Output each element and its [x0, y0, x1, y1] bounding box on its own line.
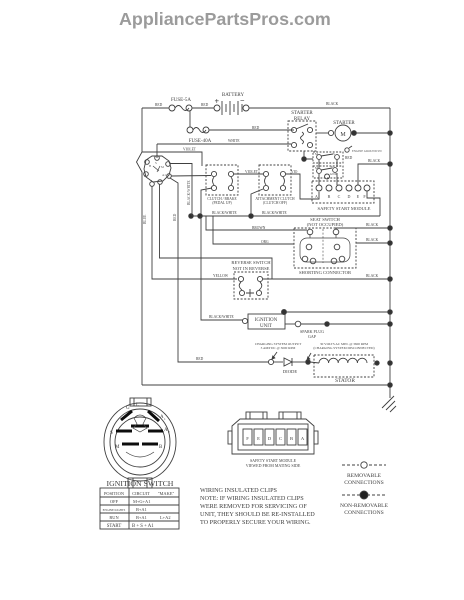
svg-text:(CHARGING SYSTEM DISCONNECTED): (CHARGING SYSTEM DISCONNECTED): [313, 346, 374, 350]
wire fuse40 riser: [189, 111, 191, 127]
wire relay coil to mini module: [304, 151, 313, 159]
svg-text:FUSE-40A: FUSE-40A: [189, 139, 212, 144]
connector J1 safety start module detail: [232, 419, 314, 454]
svg-text:IGNITION: IGNITION: [255, 318, 278, 323]
svg-text:GAP: GAP: [308, 334, 317, 339]
switch S3 ATTACHMENT CLUTCH box: [259, 165, 291, 195]
svg-text:+: +: [215, 97, 220, 106]
wire violet net upper: [142, 152, 202, 166]
wire violet to module pin A: [286, 174, 319, 199]
svg-text:IGNITION SWITCH: IGNITION SWITCH: [107, 479, 174, 488]
wire white from switch to relay: [157, 143, 291, 145]
wire black module to rail: [358, 164, 390, 185]
fuse F2 FUSE-40A: [187, 127, 193, 133]
svg-text:S: S: [331, 165, 333, 169]
svg-text:BROWN: BROWN: [252, 226, 266, 230]
svg-text:VIO: VIO: [291, 170, 298, 174]
svg-text:S: S: [333, 152, 335, 156]
wire starter to rail: [351, 132, 390, 134]
svg-text:STARTER: STARTER: [333, 121, 355, 126]
svg-text:D: D: [348, 194, 351, 199]
svg-text:NON-REMOVABLE: NON-REMOVABLE: [340, 503, 389, 509]
connector engine ground flag: [345, 148, 349, 152]
wire blackwhite down to ignition unit: [201, 216, 243, 320]
wire upper branch to reverse bypass: [160, 184, 273, 279]
svg-text:A1: A1: [162, 173, 166, 177]
svg-text:C: C: [279, 436, 282, 441]
motor M1 STARTER: [328, 130, 333, 135]
svg-text:POSITION: POSITION: [104, 491, 125, 496]
ignition unit U2 box: [248, 314, 285, 329]
svg-text:L+A2: L+A2: [160, 515, 171, 520]
ignition switch detail body: [104, 403, 176, 481]
svg-text:WHITE: WHITE: [228, 139, 240, 143]
svg-text:BLACK: BLACK: [366, 274, 379, 278]
svg-text:M: M: [161, 165, 164, 169]
seat switch S5 box: [294, 228, 356, 268]
svg-text:RELAY: RELAY: [294, 117, 311, 122]
svg-text:REMOVABLE: REMOVABLE: [347, 473, 382, 479]
interlock mini box 1: [313, 152, 343, 163]
wire seat brown: [206, 216, 307, 230]
wire clutch box 2 drop: [251, 189, 263, 216]
svg-text:L: L: [151, 179, 153, 183]
svg-text:BLACK: BLACK: [366, 238, 379, 242]
svg-text:RED: RED: [252, 126, 260, 130]
wire bottom ground run: [142, 384, 390, 386]
svg-text:B+A1: B+A1: [136, 515, 147, 520]
svg-text:S: S: [155, 161, 157, 165]
svg-text:ORG: ORG: [261, 240, 269, 244]
legend removable connection symbol: [342, 464, 386, 466]
svg-text:(PEDAL UP): (PEDAL UP): [212, 201, 232, 205]
battery B1: [214, 105, 220, 111]
svg-text:CONNECTIONS: CONNECTIONS: [344, 510, 383, 516]
svg-text:−: −: [240, 96, 245, 105]
svg-text:ENGINE GROUND SW: ENGINE GROUND SW: [352, 149, 382, 153]
wire seat orange: [213, 216, 294, 244]
svg-text:M: M: [340, 132, 346, 138]
left rail from fuse feed down to bottom: [137, 108, 143, 385]
svg-text:L: L: [136, 403, 139, 408]
svg-text:BLACK: BLACK: [366, 223, 379, 227]
svg-text:RUN: RUN: [109, 515, 119, 520]
svg-text:C: C: [338, 194, 341, 199]
svg-text:VIOLET: VIOLET: [245, 170, 259, 174]
svg-text:VIOLET: VIOLET: [183, 148, 197, 152]
svg-text:NOTE: IF WIRING INSULATED CLIP: NOTE: IF WIRING INSULATED CLIPS: [200, 495, 304, 502]
svg-text:B+A1: B+A1: [136, 507, 147, 512]
wire violet between boxes: [234, 173, 263, 175]
charging connector arrow: [272, 352, 277, 359]
svg-text:ENGINE/LIGHTS: ENGINE/LIGHTS: [103, 508, 126, 512]
stator L1 box: [314, 355, 374, 377]
svg-text:GND: GND: [330, 172, 338, 176]
svg-text:WIRING INSULATED CLIPS: WIRING INSULATED CLIPS: [200, 487, 278, 494]
svg-text:M: M: [315, 152, 318, 156]
svg-text:UNIT: UNIT: [260, 324, 272, 329]
wire top feed to fuse: [142, 107, 169, 109]
wire module internal risers: [318, 174, 320, 185]
svg-text:START: START: [107, 524, 122, 529]
svg-text:RED: RED: [201, 103, 209, 107]
svg-text:B + S + A1: B + S + A1: [132, 524, 154, 529]
interlock mini box 2: [313, 166, 343, 178]
svg-text:CONNECTIONS: CONNECTIONS: [344, 480, 383, 486]
svg-text:SHORTING CONNECTOR: SHORTING CONNECTOR: [299, 270, 352, 275]
spark plug P1: [285, 323, 295, 325]
diode D1: [274, 361, 283, 363]
svg-text:YELLOW: YELLOW: [213, 274, 229, 278]
ignition switch S1 body: [144, 156, 171, 182]
svg-text:M: M: [115, 445, 120, 450]
svg-text:G: G: [126, 406, 130, 411]
svg-text:TO PROPERLY SECURE YOUR WIRING: TO PROPERLY SECURE YOUR WIRING.: [200, 519, 311, 526]
wire fuse to battery: [192, 107, 214, 109]
wire clutch box 1 drop: [201, 188, 212, 216]
fuse F1 FUSE-5A: [169, 105, 175, 111]
svg-text:E: E: [257, 436, 260, 441]
svg-text:DIODE: DIODE: [283, 369, 297, 374]
svg-text:STATOR: STATOR: [335, 378, 355, 384]
wire black/white row: [191, 215, 380, 217]
reverse switch S4 box: [234, 272, 268, 299]
ignition switch detail terminals: [116, 411, 163, 444]
svg-text:S: S: [110, 431, 113, 436]
svg-text:B: B: [328, 194, 331, 199]
wire switch to clutch box: [171, 175, 211, 178]
svg-text:REVERSE SWITCH: REVERSE SWITCH: [231, 260, 271, 265]
svg-text:(CLUTCH OFF): (CLUTCH OFF): [263, 201, 288, 205]
svg-text:AppliancePartsPros.com: AppliancePartsPros.com: [119, 9, 331, 29]
svg-text:CIRCUIT: CIRCUIT: [132, 491, 150, 496]
svg-text:FUSE-5A: FUSE-5A: [171, 98, 191, 103]
svg-text:BLACK/WHITE: BLACK/WHITE: [209, 315, 235, 319]
svg-text:NOT IN REVERSE: NOT IN REVERSE: [233, 266, 270, 271]
svg-text:BLACK: BLACK: [368, 159, 381, 163]
svg-text:RED: RED: [345, 156, 353, 160]
svg-text:B: B: [149, 164, 151, 168]
module U1 SAFETY START MODULE box: [312, 181, 374, 203]
relay K1 STARTER RELAY box: [288, 121, 316, 151]
svg-text:1: 1: [164, 417, 166, 421]
svg-text:BLUE: BLUE: [143, 214, 147, 224]
svg-text:RED: RED: [173, 213, 177, 221]
wire battery to right rail (BLACK): [249, 107, 390, 109]
ground symbol engine ground: [382, 396, 396, 412]
svg-text:A: A: [315, 194, 318, 199]
right ground rail: [389, 108, 391, 398]
wire relay to starter: [316, 132, 328, 134]
svg-text:3 AMP DC @ 3600 RPM: 3 AMP DC @ 3600 RPM: [261, 346, 296, 350]
wire seat outputs to rail: [336, 228, 390, 229]
table ignition switch: [100, 488, 179, 529]
wire yellow to reverse switch: [152, 186, 237, 279]
wire pin F to blackwhite row: [367, 191, 380, 216]
svg-text:M: M: [315, 166, 318, 170]
svg-text:UNIT, THEY SHOULD BE RE-INSTAL: UNIT, THEY SHOULD BE RE-INSTALLED: [200, 511, 315, 518]
svg-text:RED: RED: [155, 103, 163, 107]
legend non-removable connection symbol: [342, 494, 386, 496]
svg-text:WERE REMOVED FOR SERVICING OF: WERE REMOVED FOR SERVICING OF: [200, 503, 307, 510]
svg-text:OFF: OFF: [110, 499, 119, 504]
wire fuse40 to starter relay (RED): [209, 129, 294, 131]
switch S2 CLUTCH/BRAKE box: [206, 165, 238, 195]
wire riser switch top: [156, 144, 158, 158]
svg-text:M+G+A1: M+G+A1: [133, 499, 150, 504]
wire switch M drop: [170, 164, 192, 217]
svg-text:SAFETY START MODULE: SAFETY START MODULE: [318, 206, 371, 211]
wire red charging from switch: [170, 178, 268, 362]
svg-text:BLACK: BLACK: [326, 102, 339, 106]
svg-text:F: F: [246, 436, 249, 441]
svg-text:"MAKE": "MAKE": [158, 491, 175, 496]
svg-text:B: B: [290, 436, 293, 441]
svg-text:RED: RED: [196, 357, 204, 361]
junction dot: [352, 131, 357, 136]
svg-text:(NOT OCCUPIED): (NOT OCCUPIED): [307, 222, 344, 227]
wire ignition unit top to rail: [284, 312, 390, 314]
wire reverse output to rail: [263, 278, 390, 280]
svg-text:BLACK/WHITE: BLACK/WHITE: [187, 179, 191, 205]
svg-text:BLACK/WHITE: BLACK/WHITE: [262, 211, 288, 215]
svg-text:BLACK/WHITE: BLACK/WHITE: [212, 211, 238, 215]
svg-text:STARTER: STARTER: [291, 111, 313, 116]
svg-text:2: 2: [168, 430, 170, 434]
svg-text:VIEWED FROM MATING SIDE: VIEWED FROM MATING SIDE: [246, 463, 301, 468]
